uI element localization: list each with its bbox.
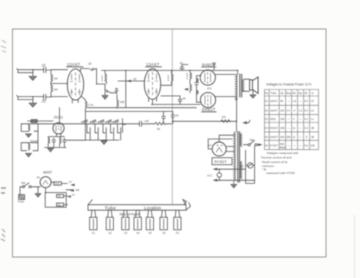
paper border frame [13, 29, 327, 257]
svg-text:245: 245 [280, 126, 285, 130]
svg-text:V6: V6 [265, 144, 269, 148]
svg-text:—: — [287, 127, 290, 130]
svg-text:V6: V6 [162, 231, 166, 235]
tube V2 12AX7 envelope [144, 69, 160, 100]
resistor R4 tone to bus [117, 99, 119, 109]
wire V2 cathode to C8 [161, 95, 180, 97]
svg-text:V2: V2 [265, 108, 269, 112]
wire plate node [161, 82, 172, 85]
speaker SP1 [250, 77, 259, 93]
resistor R1 grid 1meg [51, 70, 53, 83]
svg-text:12AX7: 12AX7 [270, 99, 278, 103]
capacitor C9 bus tap [162, 111, 166, 123]
resistor R7 220K [190, 80, 192, 92]
AC line wires [215, 169, 255, 180]
svg-text:.05: .05 [175, 113, 179, 117]
ground bus [85, 139, 119, 141]
svg-text:V4: V4 [136, 231, 140, 235]
wire bus to oscillator [59, 108, 61, 124]
B+ centre tap [237, 70, 239, 74]
resistor R11 choke/filter [221, 120, 230, 123]
svg-text:—: — [287, 100, 290, 103]
wire V1 cathode down [84, 111, 86, 140]
resistor R12 1M input [28, 120, 54, 123]
svg-text:2.7K: 2.7K [88, 103, 94, 107]
T2 top lead to B+ [236, 121, 238, 131]
B+ wire to rectifier [172, 120, 236, 122]
T1 secondary [242, 79, 244, 91]
svg-text:Gnd: Gnd [55, 182, 60, 186]
svg-text:—: — [299, 100, 302, 103]
socket box V6 [160, 210, 168, 230]
capacitor C6 grid top [195, 76, 199, 87]
paper crease line [171, 30, 173, 205]
svg-text:—: — [299, 118, 302, 121]
resistor R6 220K [190, 70, 192, 80]
fuse FU1 [248, 163, 253, 168]
svg-text:Ef: Ef [305, 91, 308, 95]
ground (tremolo) [50, 147, 52, 150]
resistor R9 grid stoppers [197, 79, 198, 95]
fuse block [19, 187, 25, 200]
svg-text:.38: .38 [310, 126, 314, 130]
svg-text:—: — [299, 145, 302, 148]
svg-text:Voltages to Chassis Power: Voltages to Chassis Power 117v [266, 83, 312, 87]
V4 plate wire [215, 96, 236, 98]
svg-text:.02: .02 [133, 77, 137, 81]
svg-text:1.2: 1.2 [299, 108, 303, 112]
capacitor C2 .02 [44, 94, 51, 99]
resistor R10 on B+ [155, 122, 172, 125]
svg-text:250: 250 [286, 135, 291, 139]
svg-text:—: — [293, 145, 296, 148]
svg-text:6.3: 6.3 [304, 108, 308, 112]
svg-text:SW: SW [250, 138, 255, 142]
line L3 [85, 110, 172, 112]
ground (speed) [26, 134, 32, 138]
tremolo RC network [45, 133, 67, 147]
svg-text:V3: V3 [265, 117, 269, 121]
capacitor C16 B+ (horizontal) [140, 121, 156, 126]
ground (filter bank) [103, 139, 105, 142]
svg-text:—: — [287, 118, 290, 121]
svg-text:300: 300 [280, 142, 285, 146]
svg-text:No: No [265, 91, 269, 95]
svg-text:—: — [287, 145, 290, 148]
svg-text:2A: 2A [240, 164, 243, 168]
svg-text:P1: P1 [37, 175, 41, 179]
svg-text:470: 470 [207, 87, 212, 91]
svg-text:Eg: Eg [299, 91, 303, 95]
V1 pin stubs [72, 96, 85, 103]
svg-text:Fuse: Fuse [18, 200, 24, 204]
svg-text:1.8: 1.8 [293, 99, 297, 103]
ground (J2 sleeve) [29, 103, 36, 107]
svg-text:6V6GT: 6V6GT [202, 107, 216, 112]
svg-text:115: 115 [280, 108, 285, 112]
V6 internals [56, 125, 61, 132]
svg-text:6V6GT: 6V6GT [270, 126, 279, 130]
capacitor C3 coupling (slanted) [90, 68, 96, 70]
wire to V2 grid with arrow [118, 80, 145, 82]
svg-text:.07: .07 [310, 99, 314, 103]
ground (pilot) [37, 187, 39, 194]
resistor 75ohm a [57, 194, 64, 197]
svg-text:V5: V5 [265, 135, 269, 139]
socket box V2 [106, 210, 113, 230]
svg-text:V3: V3 [124, 231, 128, 235]
svg-text:Voltages measured with: Voltages measured with [267, 151, 299, 155]
tube V4 6V6GT envelope [200, 92, 215, 107]
svg-text:5Y3GT: 5Y3GT [270, 144, 279, 148]
svg-text:5K: 5K [157, 127, 160, 131]
ground (J1 sleeve) [29, 76, 36, 80]
svg-text:1W: 1W [222, 115, 226, 119]
svg-text:2D21: 2D21 [270, 117, 277, 121]
fuse loop wires [246, 146, 255, 183]
ground (volume) [102, 96, 108, 100]
svg-text:Tube: Tube [105, 205, 117, 210]
arrow to OT B+ [242, 121, 247, 124]
svg-text:Esg: Esg [286, 91, 291, 95]
scanner edge artifact right [354, 215, 356, 278]
table header [265, 91, 314, 95]
input jack J2 [17, 95, 44, 103]
V3 plate wire [215, 73, 236, 75]
svg-text:—: — [299, 136, 302, 139]
resistor R3 500K [105, 70, 107, 83]
tube V3 6V6GT envelope [200, 70, 215, 85]
rectifier V7 5Y3GT [212, 142, 226, 156]
svg-text:V5: V5 [148, 231, 152, 235]
resistor R5 100K plate [172, 70, 174, 82]
socket box V3 [122, 210, 129, 230]
ground (speaker) [252, 90, 254, 95]
svg-text:6V6GT: 6V6GT [270, 135, 279, 139]
socket box V4 [134, 210, 142, 230]
switch SW2 [20, 183, 40, 188]
svg-text:.02: .02 [179, 61, 183, 65]
svg-text:5.0: 5.0 [304, 144, 308, 148]
V1 plate wire to coupling cap [81, 69, 90, 72]
line L4 [151, 103, 200, 105]
svg-text:250: 250 [280, 135, 285, 139]
svg-text:V7: V7 [208, 143, 212, 147]
rectifier wires to transformer [208, 135, 234, 151]
table notes [261, 151, 299, 175]
svg-text:12AX7: 12AX7 [146, 62, 160, 67]
svg-text:50K: 50K [120, 100, 125, 104]
speaker wires [244, 79, 250, 91]
svg-text:2D21: 2D21 [54, 114, 64, 119]
MAIN SCHEMATIC [17, 61, 319, 235]
T2 core [238, 131, 240, 182]
svg-text:1.2: 1.2 [310, 108, 314, 112]
V2 pin stubs [149, 98, 157, 101]
wire/arrow to grids [184, 88, 188, 91]
svg-text:12AX7: 12AX7 [67, 62, 81, 67]
resistor R8 cathode V1 [85, 100, 87, 112]
tube V6 2D21 envelope [53, 123, 64, 134]
scanner edge artifacts left margin [1, 40, 6, 241]
svg-text:125: 125 [310, 144, 315, 148]
lamp across line [217, 173, 221, 177]
svg-text:Tremolo control off and: Tremolo control off and [261, 156, 292, 160]
svg-text:V1: V1 [265, 99, 269, 103]
svg-text:6.3: 6.3 [304, 117, 308, 121]
svg-text:2.4: 2.4 [286, 108, 290, 112]
filter cap bank C11-C15 [87, 124, 121, 140]
V1 internal elements [70, 73, 81, 96]
svg-text:P1: P1 [176, 231, 180, 235]
capacitor C5 coupling over bus [180, 65, 188, 71]
svg-text:6AN7: 6AN7 [43, 171, 52, 175]
T1 core [240, 74, 242, 98]
svg-text:RMS: RMS [280, 146, 286, 150]
resistor 75ohm b [57, 203, 64, 206]
svg-text:12AX7: 12AX7 [270, 108, 278, 112]
table rows [265, 99, 315, 150]
ground (transformer) [233, 183, 235, 185]
wire top bus to tone [125, 70, 127, 107]
T2 secondary top [240, 134, 241, 147]
svg-text:6.3: 6.3 [304, 99, 308, 103]
pilot lamp P1 [40, 177, 51, 188]
B+ bus line [102, 69, 238, 71]
svg-text:Ep: Ep [281, 91, 285, 95]
wire plate node to pot [97, 83, 105, 85]
tube V1 12AX7 envelope [67, 69, 83, 100]
T2 secondary bottom [240, 162, 241, 179]
svg-text:.38: .38 [310, 135, 314, 139]
svg-text:Tube: Tube [271, 91, 277, 95]
output transformer T1 primary [236, 74, 238, 99]
capacitor C7 grid bottom [197, 76, 202, 103]
V2 internal elements [147, 72, 158, 95]
depth control loop [21, 131, 38, 151]
V4 internals [205, 95, 211, 106]
input jack J1 [17, 69, 44, 77]
socket box V1 [90, 210, 97, 230]
power transformer T2 primary winding [234, 132, 236, 182]
socket box V5 [146, 210, 153, 230]
V3 internals [205, 72, 211, 83]
line L2 [88, 107, 196, 109]
wire J2 to V1 [51, 96, 68, 98]
svg-text:5Y3GT: 5Y3GT [214, 159, 227, 164]
svg-text:Location: Location [144, 205, 162, 210]
capacitor C4 tone [111, 88, 119, 93]
svg-text:.02: .02 [41, 63, 46, 67]
arrows to footswitch [64, 190, 73, 205]
wire tremolo to cathode line [66, 139, 85, 141]
wire grid node to V1 [51, 83, 68, 85]
svg-text:1M: 1M [54, 76, 59, 80]
5Y3GT label box [212, 158, 232, 165]
svg-text:—: — [299, 127, 302, 130]
svg-text:Rear of Panel: Rear of Panel [120, 212, 140, 216]
voltage table grid [265, 90, 319, 150]
svg-text:.05: .05 [182, 97, 186, 101]
svg-text:V1: V1 [92, 231, 96, 235]
capacitor C17 bypass [213, 63, 216, 70]
gnd sw label box [54, 182, 62, 185]
socket box P1 [174, 210, 181, 230]
svg-text:V2: V2 [108, 231, 112, 235]
cap value labels (slanted) [82, 120, 119, 123]
svg-text:1.1: 1.1 [310, 117, 314, 121]
B+ / filter top bus [21, 123, 139, 125]
svg-text:V4: V4 [265, 126, 269, 130]
resistor R2 grid 1meg [51, 84, 53, 97]
svg-text:.02: .02 [41, 100, 46, 104]
svg-text:measured with VTVM: measured with VTVM [266, 171, 295, 175]
wire J1 to V1 grid [51, 69, 68, 71]
capacitor C10 bus tap [171, 111, 175, 123]
cathode wire V2 [152, 99, 154, 104]
svg-text:A.C.: A.C. [207, 174, 213, 178]
switch SW1 [244, 140, 258, 145]
speed control loop [21, 124, 38, 132]
footswitch box [45, 193, 66, 208]
arrow AC hot [257, 144, 260, 146]
volume pot [104, 84, 106, 95]
svg-text:+40: +40 [144, 119, 149, 123]
svg-text:105: 105 [280, 117, 285, 121]
wire down to volume [96, 69, 98, 84]
wire pilot right [51, 182, 67, 183]
wire OT to B+ line [236, 98, 238, 122]
svg-text:6.3: 6.3 [304, 126, 308, 130]
capacitor C1 .02 [44, 67, 51, 72]
svg-text:SW: SW [21, 181, 26, 185]
ground (depth) [26, 153, 32, 157]
capacitor C8 .05 [178, 96, 182, 104]
svg-text:1M: 1M [54, 88, 59, 92]
tube location chassis bar [88, 200, 191, 211]
wire pilot bottom to box [45, 188, 47, 193]
